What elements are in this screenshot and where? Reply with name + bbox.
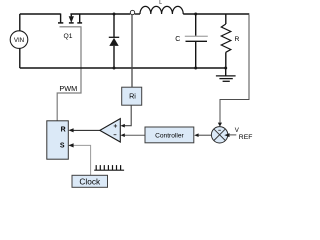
ground [216, 68, 236, 81]
label V REF [235, 127, 253, 141]
svg-text:L: L [159, 0, 162, 6]
svg-text:Controller: Controller [155, 132, 184, 139]
wire: bottom rail [20, 67, 226, 69]
voltage source VIN [10, 31, 28, 49]
arrowhead into controller [194, 133, 198, 137]
arrowhead into latch S [68, 143, 73, 147]
op-amp comparator U1 [100, 119, 121, 142]
junction: resistor bottom node [224, 67, 227, 70]
block Ri [122, 87, 142, 105]
wire: output feedback from top-right corner down to summing node [220, 15, 249, 123]
wire: VREF input to summing node [229, 134, 236, 136]
transistor Q1 [58, 14, 82, 23]
summing node (multiplier) [211, 127, 227, 143]
arrowhead VREF into summing node [224, 133, 229, 137]
svg-text:PWM: PWM [59, 84, 77, 93]
resistor R [221, 14, 231, 68]
block Controller [145, 127, 194, 143]
wire: clock to latch S [69, 145, 91, 175]
arrowhead into comparator minus [120, 133, 124, 137]
latch U2 (SR flip-flop) [47, 121, 69, 159]
wire: switch node to Ri (current sense) [131, 15, 133, 88]
wire: VIN bottom lead [19, 48, 21, 68]
wire: VIN top lead to top rail [19, 14, 21, 31]
svg-text:R: R [61, 127, 66, 134]
wire: controller to comparator minus input [124, 134, 145, 136]
junction: diode top node [113, 13, 116, 16]
arrowhead into summing node top [218, 123, 222, 127]
svg-text:VIN: VIN [14, 37, 24, 44]
arrowhead into comparator plus [120, 124, 124, 128]
svg-text:S: S [60, 142, 65, 149]
junction: capacitor top node [194, 13, 197, 16]
wire: top rail VIN to Q1 source [20, 13, 61, 15]
svg-text:V: V [235, 127, 240, 134]
arrowhead into latch R [68, 128, 73, 132]
wire: tap circle to inductor [135, 13, 140, 15]
wire: inductor to output node and right corner [183, 13, 249, 15]
junction: diode bottom node [113, 67, 116, 70]
wire: Ri to comparator plus input [124, 105, 131, 126]
svg-text:Clock: Clock [79, 177, 101, 187]
capacitor C [185, 14, 208, 68]
node: switch node tap circle [130, 10, 134, 14]
junction: capacitor bottom node [194, 67, 197, 70]
wire: comparator output to latch R [72, 129, 99, 131]
inductor L [140, 6, 183, 14]
svg-text:R: R [235, 36, 240, 43]
svg-text:Ri: Ri [129, 92, 136, 101]
wire: summing node to controller [198, 134, 211, 136]
wire: top rail Q1 drain to switch node [70, 13, 130, 15]
diode D1 [109, 14, 119, 68]
svg-text:REF: REF [239, 134, 253, 141]
block Clock [72, 175, 108, 187]
clock waveform glyph [94, 165, 124, 170]
svg-text:C: C [175, 36, 180, 43]
svg-text:Q1: Q1 [64, 33, 73, 40]
Q1 gate plate and gate lead (PWM net) [57, 27, 81, 121]
